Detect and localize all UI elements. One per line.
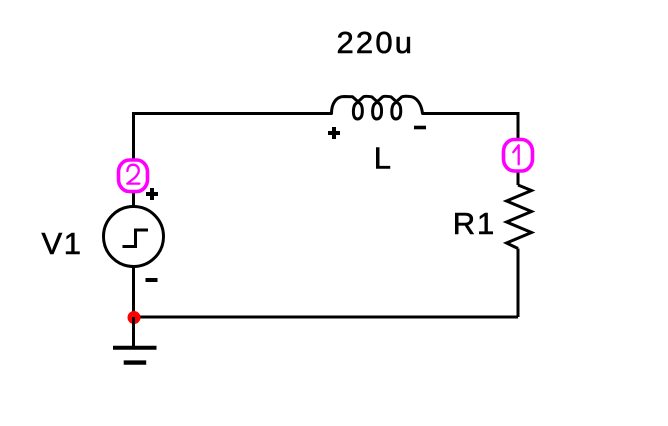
ground wide bar bbox=[113, 346, 157, 350]
ground stem bbox=[132, 317, 135, 346]
voltage source step waveform symbol bbox=[123, 230, 149, 247]
svg-text:V1: V1 bbox=[42, 226, 82, 261]
svg-text:R1: R1 bbox=[453, 206, 495, 241]
node 2 badge bbox=[119, 160, 148, 192]
wire top-left horizontal segment (node 2 to inductor) bbox=[134, 114, 332, 208]
resistor R1 zigzag bbox=[507, 185, 532, 249]
svg-text:L: L bbox=[374, 141, 391, 176]
junction dot (red) bbox=[128, 311, 141, 324]
inductor - polarity mark bbox=[414, 126, 426, 130]
node 1 badge bbox=[504, 140, 533, 172]
wire bottom horizontal bbox=[134, 316, 518, 319]
inductor + polarity mark bbox=[328, 127, 340, 139]
source + polarity mark bbox=[146, 188, 158, 200]
inductor L coil bbox=[332, 96, 423, 119]
wire source bottom to junction bbox=[132, 267, 135, 318]
voltage source V1 circle bbox=[104, 207, 164, 267]
source - polarity mark bbox=[146, 278, 158, 282]
wire resistor bottom to bottom-right corner bbox=[517, 249, 520, 318]
ground short bar bbox=[124, 360, 147, 364]
svg-text:220u: 220u bbox=[337, 25, 413, 60]
wire inductor right to top-right corner down to resistor bbox=[423, 114, 519, 186]
